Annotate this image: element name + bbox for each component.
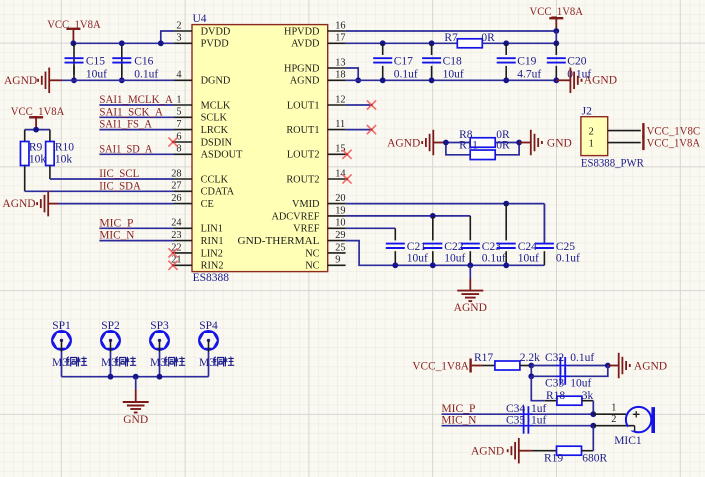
svg-text:3: 3 [176, 33, 181, 44]
junction VMID C24 [503, 201, 509, 207]
resistor R9 [24, 130, 26, 142]
junction C32 AGND node [605, 363, 611, 369]
junction GND stem [133, 374, 139, 380]
U4 pin 14 ROUT2 (right) [328, 178, 346, 180]
net label IIC_SDA wire [25, 190, 174, 192]
U4 pin 8 ASDOUT (left) [174, 153, 192, 155]
wire VCC stem to AVDD row [555, 31, 557, 43]
capacitor C23 [469, 216, 471, 241]
ground AGND (cap bank) [469, 265, 471, 278]
svg-text:J2: J2 [582, 106, 592, 118]
net label SAI1_MCLK_A wire [99, 104, 174, 106]
wire net tie bottom branch [446, 143, 470, 155]
svg-text:MIC_P: MIC_P [441, 403, 475, 415]
junction C17 bottom [380, 77, 386, 83]
svg-text:SP1: SP1 [52, 320, 71, 332]
svg-text:R19: R19 [544, 453, 563, 465]
U4 pin 28 CCLK (left) [174, 178, 192, 180]
no-connect X pin 15 [342, 150, 351, 159]
svg-text:1: 1 [176, 94, 181, 105]
net label MIC_N wire (left) [99, 240, 174, 242]
svg-text:VCC_1V8A: VCC_1V8A [530, 6, 584, 18]
svg-text:M3: M3 [150, 357, 166, 369]
svg-text:LRCK: LRCK [201, 125, 229, 136]
svg-text:1uf: 1uf [531, 414, 547, 426]
U4 pin 21 RIN2 (left) [174, 264, 192, 266]
resistor R17 [483, 365, 495, 367]
wire pin13 HPGND jog [346, 68, 359, 80]
power port VCC_1V8A (mic) [469, 359, 471, 373]
svg-text:C25: C25 [556, 241, 575, 253]
wire C33 branch down [530, 366, 532, 377]
svg-text:CDATA: CDATA [201, 187, 235, 198]
svg-text:C35: C35 [506, 414, 525, 426]
svg-text:HPGND: HPGND [284, 63, 320, 74]
power port VCC_1V8C (J2) [642, 123, 644, 138]
svg-text:U4: U4 [193, 13, 207, 25]
svg-text:R11: R11 [459, 140, 478, 152]
svg-text:DSDIN: DSDIN [201, 137, 233, 148]
wire branch down to R18 [531, 376, 545, 400]
svg-text:NC: NC [305, 261, 319, 272]
svg-text:C15: C15 [86, 55, 105, 67]
svg-text:28: 28 [171, 168, 181, 179]
junction C19 bottom [503, 77, 509, 83]
U4 pin 10 VREF (right) [328, 227, 346, 229]
svg-text:RIN1: RIN1 [201, 236, 224, 247]
svg-text:R9: R9 [29, 141, 43, 153]
net label SAI1_FS_A wire [99, 129, 174, 131]
svg-text:SP3: SP3 [150, 320, 169, 332]
svg-text:10uf: 10uf [407, 252, 428, 264]
svg-text:0R: 0R [496, 140, 510, 152]
wire VCC node to pin3 [73, 42, 160, 44]
junction C15 [71, 77, 77, 83]
wire pin10 VREF [346, 227, 396, 229]
svg-text:VCC_1V8A: VCC_1V8A [11, 106, 65, 118]
svg-text:5: 5 [176, 107, 181, 118]
svg-text:19: 19 [335, 205, 345, 216]
svg-text:2: 2 [589, 126, 594, 137]
svg-text:0.1uf: 0.1uf [570, 352, 594, 364]
junction AVDD C18 [429, 40, 435, 46]
wire AGND to CE pin 26 [58, 203, 174, 205]
capacitor C21 [394, 228, 396, 240]
capacitor C22 [432, 216, 434, 241]
junction C18 bottom [429, 77, 435, 83]
capacitor C19 [505, 43, 507, 55]
svg-text:R7: R7 [444, 32, 458, 44]
wire pin16 HPVDD [346, 30, 557, 32]
no-connect X pin 14 [342, 174, 351, 183]
svg-text:C32: C32 [545, 352, 564, 364]
no-connect X pin 12 [367, 100, 376, 109]
junction C21 rail [392, 262, 398, 268]
resistor R11 [470, 150, 495, 160]
U4 pin 15 LOUT2 (right) [328, 153, 346, 155]
no-connect X pin 22 [168, 248, 177, 257]
capacitor C25 [543, 204, 545, 241]
standoff SP4 pin wire [208, 340, 210, 352]
junction C33 branch [528, 373, 534, 379]
no-connect X pin 6 [168, 137, 177, 146]
net label MIC_P wire (mic) [442, 413, 522, 415]
svg-text:R18: R18 [546, 390, 565, 402]
svg-text:CE: CE [201, 199, 214, 210]
svg-text:AGND: AGND [584, 75, 617, 87]
svg-text:VREF: VREF [293, 224, 320, 235]
svg-text:2: 2 [611, 414, 616, 425]
svg-text:ADCVREF: ADCVREF [271, 211, 319, 222]
connector J2 body [581, 117, 608, 156]
svg-text:SAI1_SCK_A: SAI1_SCK_A [99, 106, 163, 118]
U4 pin 25 NC (right) [328, 252, 346, 254]
microphone MIC1 [593, 413, 626, 415]
svg-text:ES8388: ES8388 [193, 272, 230, 284]
svg-text:15: 15 [335, 144, 345, 155]
IC U4 ES8388 body [192, 25, 328, 272]
junction VCC pin16 [553, 28, 559, 34]
svg-text:AVDD: AVDD [291, 39, 320, 50]
svg-text:25: 25 [335, 242, 345, 253]
svg-text:AGND: AGND [4, 75, 37, 87]
junction SP3 [157, 374, 163, 380]
capacitor C16 [121, 43, 123, 75]
wire R18 to MIC_P node [592, 401, 594, 415]
svg-text:ROUT2: ROUT2 [286, 174, 319, 185]
svg-text:SAI1_FS_A: SAI1_FS_A [99, 119, 152, 131]
svg-text:0.1uf: 0.1uf [482, 252, 506, 264]
svg-text:2: 2 [176, 20, 181, 31]
svg-text:DGND: DGND [201, 76, 231, 87]
svg-text:IIC_SDA: IIC_SDA [99, 180, 141, 192]
svg-text:27: 27 [171, 181, 181, 192]
power port VCC_1V8A (left, pullups) [29, 116, 43, 118]
svg-text:ROUT1: ROUT1 [286, 125, 319, 136]
svg-text:C19: C19 [517, 55, 536, 67]
svg-text:SCLK: SCLK [201, 113, 228, 124]
capacitor C35 [519, 425, 533, 427]
svg-text:VCC_1V8A: VCC_1V8A [647, 138, 701, 150]
svg-text:11: 11 [335, 119, 345, 130]
svg-text:MIC_N: MIC_N [441, 414, 477, 426]
svg-text:MIC_N: MIC_N [99, 230, 135, 242]
ground GND (net tie right) [519, 142, 531, 144]
wire VMID to C25 [543, 204, 545, 244]
svg-text:C34: C34 [506, 403, 525, 415]
capacitor C34 [519, 413, 533, 415]
U4 pin 6 DSDIN (left) [174, 141, 192, 143]
svg-text:SAI1_SD_A: SAI1_SD_A [99, 143, 153, 155]
U4 pin 19 ADCVREF (right) [328, 215, 346, 217]
wire pullup top node [25, 129, 50, 131]
resistor R8 [470, 138, 495, 148]
svg-text:0.1uf: 0.1uf [394, 69, 418, 81]
junction C23 rail [467, 262, 473, 268]
svg-text:10uf: 10uf [86, 69, 107, 81]
U4 pin 3 PVDD (left) [174, 42, 192, 44]
svg-text:LOUT1: LOUT1 [287, 100, 320, 111]
svg-text:17: 17 [335, 33, 345, 44]
svg-text:GND: GND [547, 137, 572, 149]
svg-text:R17: R17 [474, 352, 493, 364]
svg-text:VCC_1V8A: VCC_1V8A [412, 360, 469, 372]
svg-text:23: 23 [171, 230, 181, 241]
power port VCC_1V8A (top right) [549, 17, 563, 19]
wire node to C32 [531, 365, 557, 367]
svg-text:GND: GND [123, 414, 148, 426]
U4 pin 29 GND-THERMAL (right) [328, 240, 346, 242]
capacitor C33 [556, 375, 570, 377]
svg-text:C33: C33 [545, 378, 564, 390]
svg-text:SAI1_MCLK_A: SAI1_MCLK_A [99, 94, 173, 106]
standoff SP1 pin wire [61, 340, 63, 352]
wire C33 to AGND riser [569, 366, 607, 377]
power port VCC_1V8A (J2) [642, 135, 644, 150]
capacitor C18 [431, 43, 433, 55]
net label MIC_P wire (left) [99, 227, 174, 229]
wire AGND rail (right) [346, 79, 557, 81]
net label SAI1_SD_A wire [99, 153, 174, 155]
svg-text:4.7uf: 4.7uf [517, 69, 541, 81]
capacitor C24 [505, 204, 507, 241]
junction HPGND-AGND [355, 77, 361, 83]
wire SP ground bus [62, 376, 209, 378]
svg-text:AGND: AGND [454, 302, 487, 314]
junction SP2 [108, 374, 114, 380]
junction C20 bottom [553, 77, 559, 83]
svg-text:VMID: VMID [292, 199, 320, 210]
ground AGND (top right) [556, 79, 570, 81]
svg-text:MCLK: MCLK [201, 100, 231, 111]
U4 pin 16 HPVDD (right) [328, 30, 346, 32]
U4 pin 27 CDATA (left) [174, 190, 192, 192]
ground GND (standoffs) [135, 377, 137, 390]
wire pins2-3 jog [161, 31, 174, 43]
net label SAI1_SCK_A wire [99, 116, 174, 118]
svg-text:10uf: 10uf [570, 378, 591, 390]
svg-text:LIN1: LIN1 [201, 224, 223, 235]
junction C22 rail [430, 262, 436, 268]
capacitor C20 [555, 43, 557, 55]
svg-text:M3: M3 [199, 357, 215, 369]
svg-text:0.1uf: 0.1uf [134, 69, 158, 81]
capacitor C32 [556, 365, 570, 367]
U4 pin 4 DGND (left) [174, 79, 192, 81]
svg-text:GND-THERMAL: GND-THERMAL [238, 236, 320, 247]
junction ADCVREF C22 [430, 213, 436, 219]
svg-text:VCC_1V8A: VCC_1V8A [47, 19, 101, 31]
svg-text:AGND: AGND [471, 446, 504, 458]
svg-text:NC: NC [305, 248, 319, 259]
svg-text:R10: R10 [55, 141, 74, 153]
standoff SP1 [52, 331, 71, 350]
svg-text:10: 10 [335, 218, 345, 229]
svg-text:20: 20 [335, 193, 345, 204]
wire pin20 VMID [346, 203, 545, 205]
standoff SP4 [199, 331, 218, 350]
junction AVDD C17 [380, 40, 386, 46]
resistor R10 [49, 130, 51, 142]
svg-text:MIC1: MIC1 [614, 435, 642, 447]
svg-text:0R: 0R [481, 32, 495, 44]
junction node VCC [71, 40, 77, 46]
svg-text:10k: 10k [29, 154, 47, 166]
svg-text:AGND: AGND [290, 76, 320, 87]
svg-text:PVDD: PVDD [201, 39, 230, 50]
svg-text:29: 29 [335, 230, 345, 241]
U4 pin 24 LIN1 (left) [174, 227, 192, 229]
junction AVDD C19 [503, 40, 509, 46]
svg-text:AGND: AGND [634, 360, 667, 372]
svg-text:1: 1 [589, 139, 594, 150]
junction C24 rail [503, 262, 509, 268]
U4 pin 11 ROUT1 (right) [328, 129, 346, 131]
U4 pin 12 LOUT1 (right) [328, 104, 346, 106]
svg-text:HPVDD: HPVDD [284, 26, 320, 37]
U4 pin 9 NC (right) [328, 264, 346, 266]
svg-text:0.1uf: 0.1uf [556, 252, 580, 264]
svg-text:12: 12 [335, 94, 345, 105]
standoff SP3 pin wire [159, 340, 161, 352]
wire net tie top branch [446, 142, 470, 144]
U4 pin 1 MCLK (left) [174, 104, 192, 106]
ground AGND (mic bias) [608, 365, 619, 367]
U4 pin 13 HPGND (right) [328, 67, 346, 69]
svg-text:DVDD: DVDD [201, 26, 231, 37]
junction MIC_P pin1 [590, 411, 596, 417]
junction net tie left [443, 140, 449, 146]
svg-text:AGND: AGND [2, 198, 35, 210]
svg-text:680R: 680R [582, 453, 607, 465]
svg-text:18: 18 [335, 70, 345, 81]
U4 pin 20 VMID (right) [328, 203, 346, 205]
wire R19 riser to MIC_N [592, 426, 594, 451]
svg-text:VCC_1V8C: VCC_1V8C [647, 125, 701, 137]
svg-text:M3: M3 [52, 357, 68, 369]
svg-text:SP2: SP2 [101, 320, 120, 332]
resistor R19 [532, 450, 557, 452]
svg-text:IIC_SCL: IIC_SCL [99, 168, 139, 180]
svg-text:1uf: 1uf [531, 403, 547, 415]
svg-text:7: 7 [176, 119, 181, 130]
standoff SP2 [101, 331, 120, 350]
junction AVDD C20 [553, 40, 559, 46]
svg-text:AGND: AGND [387, 137, 420, 149]
svg-text:16: 16 [335, 20, 345, 31]
net label IIC_SCL wire [50, 178, 174, 180]
junction MIC_N pin2 [590, 423, 596, 429]
wire DGND rail [62, 79, 175, 81]
junction net tie right [516, 140, 522, 146]
standoff SP2 pin wire [110, 340, 112, 352]
resistor R18 [545, 400, 557, 402]
svg-text:14: 14 [335, 168, 345, 179]
junction pullup node [33, 127, 39, 133]
svg-text:RIN2: RIN2 [201, 261, 224, 272]
junction C16 top [119, 40, 125, 46]
svg-text:24: 24 [171, 218, 181, 229]
svg-text:CCLK: CCLK [201, 174, 229, 185]
svg-text:M3: M3 [101, 357, 117, 369]
wire pin19 ADCVREF [346, 215, 471, 217]
svg-text:2.2k: 2.2k [520, 352, 540, 364]
U4 pin 5 SCLK (left) [174, 116, 192, 118]
wire pin29 GND-THERMAL to rail [346, 241, 396, 266]
no-connect X pin 21 [168, 261, 177, 270]
svg-text:13: 13 [335, 57, 345, 68]
svg-text:3k: 3k [582, 390, 594, 402]
svg-text:SP4: SP4 [199, 320, 218, 332]
U4 pin 18 AGND (right) [328, 79, 346, 81]
svg-text:1: 1 [611, 403, 616, 414]
wire pin17 AVDD rail [346, 42, 458, 44]
svg-text:10uf: 10uf [443, 69, 464, 81]
U4 pin 26 CE (left) [174, 203, 192, 205]
U4 pin 2 DVDD (left) [174, 30, 192, 32]
wire C32 to AGND node [569, 365, 607, 367]
junction R17-C32 [528, 363, 534, 369]
power port VCC_1V8A (top left) [66, 28, 80, 30]
U4 pin 22 LIN2 (left) [174, 252, 192, 254]
wire pin11 ROUT1 stub [346, 129, 371, 131]
svg-text:10uf: 10uf [518, 252, 539, 264]
svg-text:C16: C16 [134, 55, 153, 67]
svg-text:C24: C24 [518, 241, 537, 253]
wire pin12 LOUT1 stub [346, 104, 371, 106]
svg-text:9: 9 [335, 255, 340, 266]
svg-text:ES8388_PWR: ES8388_PWR [581, 158, 644, 170]
capacitor C17 [382, 43, 384, 55]
U4 pin 17 AVDD (right) [328, 42, 346, 44]
svg-text:10k: 10k [55, 154, 73, 166]
junction C16 bottom [119, 77, 125, 83]
svg-text:4: 4 [176, 70, 181, 81]
svg-text:MIC_P: MIC_P [99, 217, 133, 229]
svg-text:26: 26 [171, 193, 181, 204]
svg-text:LIN2: LIN2 [201, 248, 223, 259]
svg-text:C20: C20 [567, 55, 586, 67]
svg-text:ASDOUT: ASDOUT [201, 150, 243, 161]
svg-text:C17: C17 [394, 55, 413, 67]
svg-text:6: 6 [176, 131, 181, 142]
no-connect X pin 11 [367, 125, 376, 134]
svg-text:C18: C18 [443, 55, 462, 67]
standoff SP3 [150, 331, 169, 350]
U4 pin 23 RIN1 (left) [174, 240, 192, 242]
resistor R7 [457, 39, 482, 48]
capacitor C15 [73, 43, 75, 75]
wire cap bank ground rail [395, 264, 544, 266]
svg-text:10uf: 10uf [444, 252, 465, 264]
U4 pin 7 LRCK (left) [174, 129, 192, 131]
net label MIC_N wire (mic) [442, 425, 522, 427]
svg-text:LOUT2: LOUT2 [287, 150, 320, 161]
wire node to C33 [531, 375, 557, 377]
